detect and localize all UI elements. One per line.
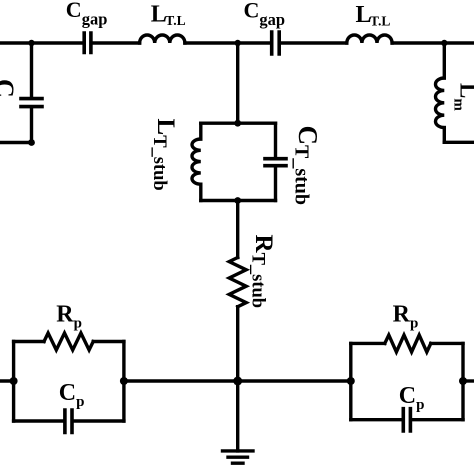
right RC loop top left segment [351,342,385,345]
wire bottom rail middle [124,379,351,382]
left RC loop bottom left segment [14,419,64,422]
capacitor C_gap (left) symbol [84,33,91,53]
tank loop left upper [199,123,202,139]
inductor Lm coil [436,78,445,128]
capacitor C_T_stub symbol [265,159,286,166]
node top-center junction [235,40,241,46]
wire right branch to edge [444,141,474,144]
right RC loop left side [349,343,352,419]
node rail left-loop right [120,377,128,385]
tank loop left lower [199,184,202,200]
wire center stub upper [236,43,239,123]
left RC loop top left segment [14,340,44,343]
wire ground stem [236,381,239,451]
node top-left junction [28,40,34,46]
left RC loop bottom right segment [74,419,124,422]
tank loop top side [201,121,276,124]
resistor R_T_stub zigzag [229,258,246,307]
node left branch bottom [28,139,35,146]
wire center stub middle [236,201,239,258]
tank loop right upper [274,123,277,157]
wire top rail segment 5 [392,41,474,44]
wire top rail segment 1 [0,41,82,44]
inductor L_T.L (left) coil [140,35,185,43]
ground symbol [223,451,254,463]
right RC loop bottom left segment [351,418,402,421]
node rail right-loop left [347,377,355,385]
right RC loop top right segment [431,342,463,345]
wire bottom rail right edge [463,379,474,382]
wire center stub lower [236,307,239,381]
svg-text:C: C [0,79,19,98]
wire left branch to edge [0,141,32,144]
node tank bottom [234,197,241,204]
capacitor C (left edge) symbol [21,99,42,107]
left RC loop left side [12,342,15,422]
node rail center [233,377,242,386]
right RC loop right side [461,343,464,419]
wire left branch upper [30,43,33,97]
wire right branch lower [443,128,446,143]
node tank top [234,120,241,127]
node rail right-loop right [459,377,467,385]
wire bottom rail left edge [0,379,14,382]
left RC loop right side [122,342,125,422]
tank loop bottom side [201,199,276,202]
wire top rail segment 2 [93,41,140,44]
wire right branch upper [443,43,446,78]
inductor L_T_stub coil [192,139,201,184]
resistor Rp (right) zigzag [385,335,431,352]
resistor Rp (left) zigzag [44,333,93,350]
capacitor C_gap (right) symbol [272,32,280,54]
wire top rail segment 4 [281,41,347,44]
node rail left-loop left [10,377,18,385]
wire left branch lower [30,108,33,142]
capacitor Cp (left) symbol [65,410,72,433]
inductor L_T.L (right) coil [347,35,392,43]
tank loop right lower [274,167,277,200]
node top-right junction [441,40,447,46]
left RC loop top right segment [93,340,124,343]
wire top rail segment 3 [185,41,270,44]
capacitor Cp (right) symbol [403,409,410,431]
right RC loop bottom right segment [412,418,463,421]
